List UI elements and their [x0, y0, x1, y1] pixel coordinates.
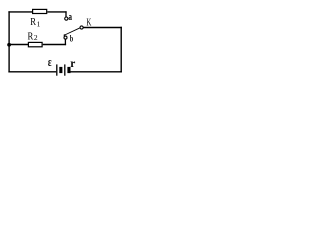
- svg-text:b: b: [70, 34, 73, 44]
- wire: short riser down to contact a: [65, 11, 67, 17]
- svg-text:r: r: [70, 57, 75, 70]
- svg-text:a: a: [68, 12, 72, 23]
- node a (open contact circle): [65, 17, 68, 20]
- wire: left vertical: [8, 11, 10, 72]
- svg-text:ε: ε: [48, 56, 52, 70]
- battery plate: short thick (cell 2): [67, 67, 70, 73]
- svg-text:1: 1: [37, 20, 41, 29]
- wire: R1 to corner at terminal a: [47, 11, 66, 13]
- svg-text:R: R: [30, 17, 36, 28]
- wire: bottom left segment (left corner to battery): [8, 71, 56, 73]
- switch K lever (thrown toward b): [64, 28, 80, 35]
- resistor R1: [33, 9, 47, 13]
- wire: top horizontal (left segment to R1): [8, 11, 32, 13]
- wire: R2 to corner below terminal b: [43, 44, 66, 46]
- battery plate: short thick (cell 1): [59, 67, 62, 73]
- battery plate: long thin (cell 1): [56, 64, 58, 75]
- switch lever tip dot: [64, 34, 66, 36]
- battery plate: long thin (cell 2): [64, 64, 66, 75]
- wire: pivot to top-right corner: [83, 27, 122, 29]
- svg-text:2: 2: [34, 33, 38, 42]
- node b (open contact circle): [64, 36, 67, 39]
- switch pivot contact circle: [80, 26, 83, 29]
- wire: bottom right segment (battery to right corner): [70, 71, 122, 73]
- wire: short riser up to contact b: [64, 39, 66, 45]
- wire: right vertical: [120, 27, 122, 73]
- wire: R2 branch (left segment): [9, 44, 28, 46]
- node: junction dot on left wire: [7, 43, 11, 47]
- svg-text:R: R: [28, 32, 34, 43]
- resistor R2: [28, 42, 42, 46]
